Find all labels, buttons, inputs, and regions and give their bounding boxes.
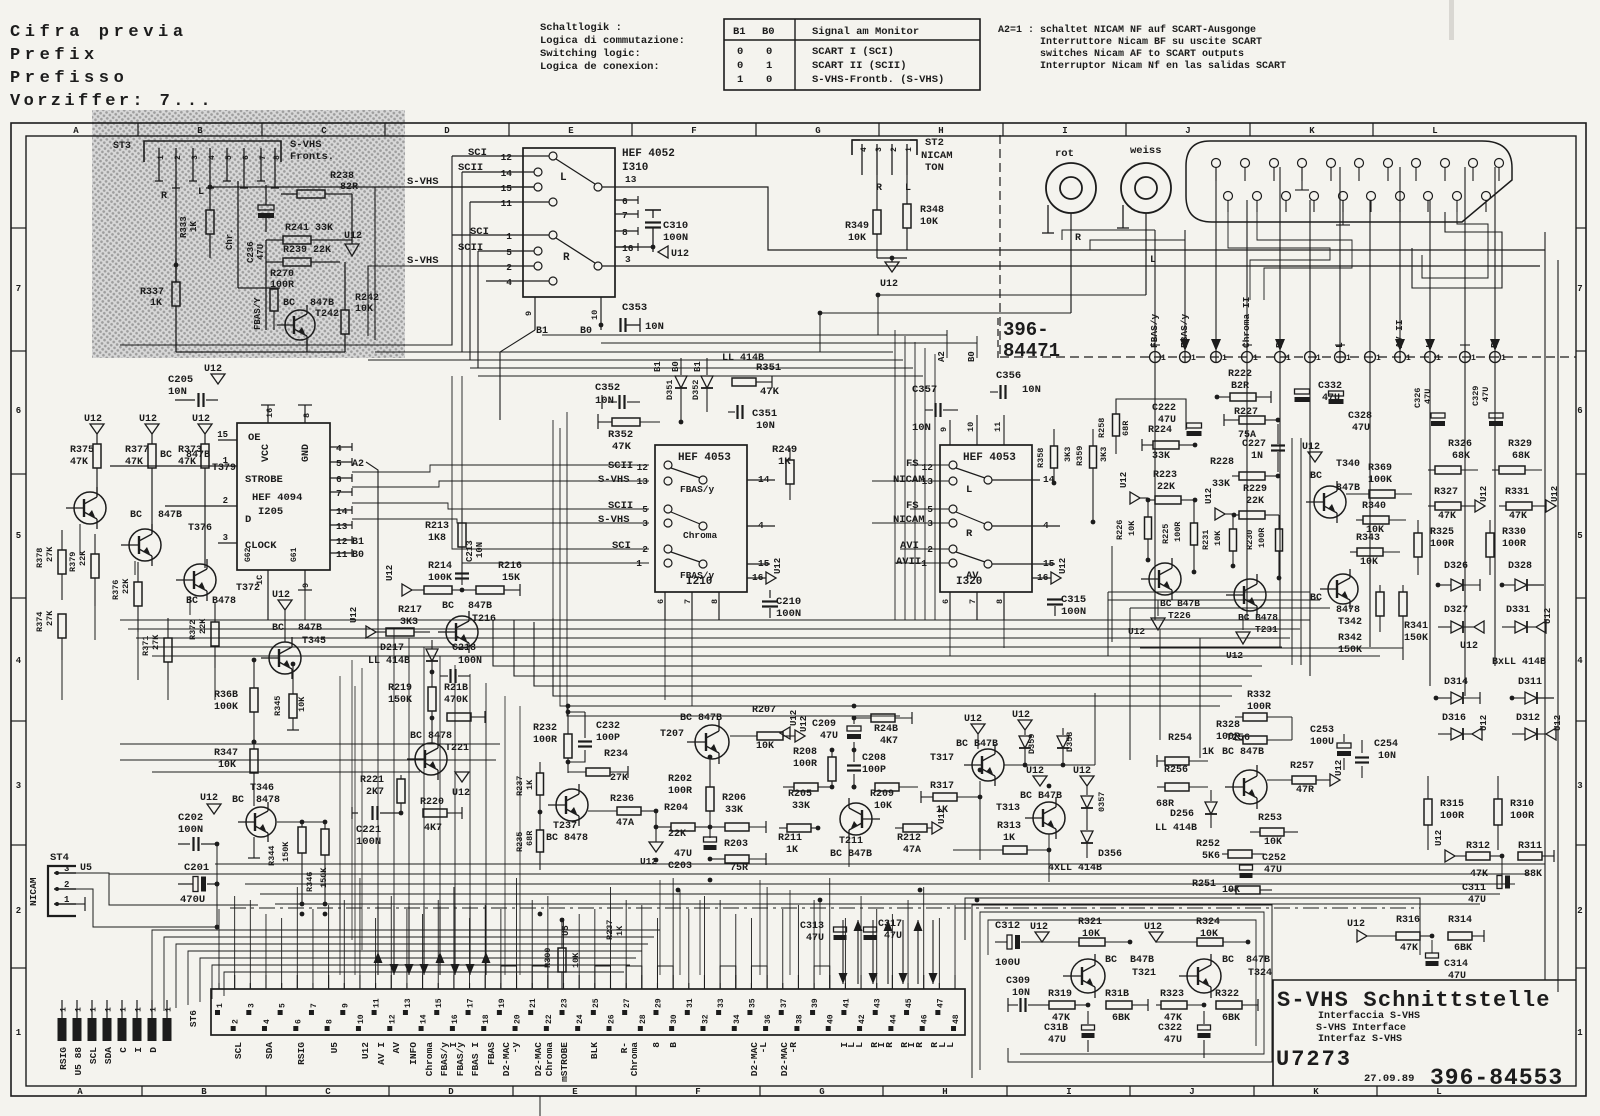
svg-text:S-VHS: S-VHS	[598, 474, 630, 486]
svg-text:396-84553: 396-84553	[1430, 1065, 1563, 1091]
svg-text:GND: GND	[301, 444, 312, 462]
svg-text:27K: 27K	[45, 610, 55, 626]
svg-text:R206: R206	[722, 793, 746, 804]
svg-text:82R: 82R	[340, 182, 358, 193]
svg-text:27K: 27K	[610, 773, 628, 784]
I320 switches	[956, 468, 985, 478]
svg-text:10K: 10K	[218, 760, 236, 771]
svg-text:D: D	[448, 1087, 454, 1097]
svg-text:C315: C315	[1061, 594, 1086, 606]
svg-text:C208: C208	[862, 753, 886, 764]
svg-text:13: 13	[336, 521, 348, 532]
svg-text:T376: T376	[188, 523, 212, 534]
svg-text:5K6: 5K6	[1202, 851, 1220, 862]
supply U12 T345	[278, 600, 292, 610]
svg-text:BC B47B: BC B47B	[956, 739, 998, 750]
svg-text:84471: 84471	[1003, 340, 1060, 362]
svg-text:LL 414B: LL 414B	[368, 656, 410, 667]
svg-text:U12: U12	[1026, 766, 1044, 777]
arrow group into ST6 right	[839, 973, 848, 984]
svg-text:19: 19	[498, 998, 507, 1008]
svg-text:BC: BC	[1310, 593, 1322, 604]
svg-text:C236: C236	[246, 241, 256, 263]
svg-text:34: 34	[733, 1014, 742, 1024]
svg-text:AVI: AVI	[900, 540, 919, 552]
svg-text:35: 35	[748, 998, 757, 1008]
wire loop nest right A	[1412, 212, 1502, 288]
svg-text:F: F	[695, 1087, 700, 1097]
svg-text:C309: C309	[1006, 976, 1030, 987]
svg-text:T321: T321	[1132, 968, 1156, 979]
svg-text:Interfaccia S-VHS: Interfaccia S-VHS	[1318, 1010, 1420, 1022]
I310 input circles	[534, 168, 542, 176]
svg-text:D: D	[444, 126, 450, 136]
svg-text:C: C	[325, 1087, 331, 1097]
svg-text:47U: 47U	[884, 931, 902, 942]
svg-text:1K: 1K	[189, 221, 199, 232]
svg-text:E: E	[572, 1087, 578, 1097]
svg-text:47U: 47U	[1164, 1035, 1182, 1046]
svg-text:33K: 33K	[792, 801, 810, 812]
ST4 pin1 stub	[76, 903, 85, 905]
svg-text:847B: 847B	[158, 510, 182, 521]
svg-text:FBAS: FBAS	[486, 1042, 497, 1065]
svg-text:U12: U12	[964, 714, 982, 725]
svg-text:7: 7	[968, 599, 978, 604]
svg-text:Interruptor Nicam Nf en las sa: Interruptor Nicam Nf en las salidas SCAR…	[1040, 60, 1286, 72]
svg-text:Logica de conexion:: Logica de conexion:	[540, 61, 660, 73]
svg-text:R256: R256	[1164, 765, 1188, 776]
svg-text:D351: D351	[665, 380, 675, 400]
svg-text:47U: 47U	[820, 731, 838, 742]
svg-text:3: 3	[16, 781, 21, 791]
supply U12 T317	[971, 724, 985, 734]
svg-text:4K7: 4K7	[880, 736, 898, 747]
svg-text:BC 847B: BC 847B	[680, 713, 722, 724]
svg-text:R316: R316	[1396, 915, 1420, 926]
svg-text:C253: C253	[1310, 725, 1334, 736]
svg-text:R348: R348	[920, 205, 944, 216]
svg-text:LL 414B: LL 414B	[1155, 823, 1197, 834]
svg-text:13: 13	[637, 476, 649, 487]
svg-text:BC: BC	[186, 596, 198, 607]
svg-text:C232: C232	[596, 721, 620, 732]
svg-text:150K: 150K	[1338, 645, 1362, 656]
svg-text:7: 7	[310, 1003, 319, 1008]
svg-text:C218: C218	[452, 643, 476, 654]
supply U12 D357	[1080, 776, 1094, 786]
supply U12 R207	[795, 730, 805, 742]
svg-text:7: 7	[683, 599, 693, 604]
wire SCART pin verticals	[1215, 167, 1217, 351]
svg-text:U12: U12	[344, 231, 362, 242]
svg-text:T221: T221	[445, 743, 469, 754]
svg-text:6: 6	[294, 1019, 303, 1024]
svg-text:NICAM: NICAM	[893, 474, 925, 486]
svg-text:C213: C213	[465, 540, 475, 562]
svg-text:3: 3	[223, 533, 228, 543]
svg-text:R270: R270	[270, 269, 294, 280]
SCART pins top row	[1212, 159, 1221, 168]
svg-text:1: 1	[216, 1003, 225, 1008]
svg-text:T372: T372	[236, 583, 260, 594]
svg-text:R324: R324	[1196, 917, 1220, 928]
wire left bus verticals	[31, 230, 33, 700]
svg-text:6: 6	[336, 474, 342, 485]
svg-text:470K: 470K	[444, 695, 468, 706]
svg-text:47U: 47U	[806, 933, 824, 944]
svg-text:12: 12	[637, 462, 649, 473]
svg-text:25: 25	[592, 998, 601, 1008]
svg-text:B: B	[197, 126, 203, 136]
capacitor C315 100N	[1054, 564, 1056, 596]
svg-text:U12: U12	[1012, 710, 1030, 721]
svg-text:HEF 4053: HEF 4053	[963, 452, 1016, 464]
svg-text:C311: C311	[1462, 883, 1486, 894]
svg-text:C310: C310	[663, 220, 688, 232]
svg-text:10K: 10K	[355, 304, 373, 315]
svg-text:FBAS/y: FBAS/y	[455, 1042, 466, 1077]
svg-text:R211: R211	[778, 833, 802, 844]
svg-text:44: 44	[889, 1014, 898, 1024]
svg-text:L: L	[966, 484, 972, 496]
wire cell dividers right	[1291, 438, 1293, 665]
svg-text:2: 2	[642, 544, 648, 555]
svg-text:R315: R315	[1440, 799, 1464, 810]
supply U12 T313	[1033, 776, 1047, 786]
svg-text:R241 33K: R241 33K	[285, 223, 333, 234]
svg-text:C356: C356	[996, 370, 1021, 382]
svg-text:R377: R377	[125, 445, 149, 456]
connector ST6 body	[211, 989, 965, 1035]
svg-text:D359: D359	[1027, 734, 1037, 754]
svg-text:U12: U12	[1302, 442, 1320, 453]
wire mid-right vertical drops	[1129, 608, 1131, 760]
svg-text:33: 33	[717, 998, 726, 1008]
svg-text:1: 1	[636, 558, 642, 569]
transistor T226	[1149, 563, 1181, 595]
svg-text:6: 6	[16, 406, 21, 416]
svg-text:3K3: 3K3	[1063, 447, 1073, 462]
svg-text:R254: R254	[1168, 733, 1192, 744]
svg-text:BC: BC	[1105, 955, 1117, 966]
svg-text:C312: C312	[995, 920, 1020, 932]
svg-text:48: 48	[952, 1014, 961, 1024]
svg-text:470U: 470U	[180, 894, 205, 906]
svg-text:U12: U12	[84, 414, 102, 425]
svg-text:NICAM: NICAM	[921, 150, 953, 162]
svg-text:8: 8	[651, 1042, 662, 1048]
svg-text:S-VHS: S-VHS	[598, 514, 630, 526]
svg-text:10N: 10N	[475, 542, 485, 558]
svg-text:L: L	[198, 187, 204, 198]
svg-text:47U: 47U	[1423, 389, 1433, 404]
svg-text:R345: R345	[273, 696, 283, 716]
svg-text:R231: R231	[1201, 530, 1211, 550]
svg-text:B0: B0	[762, 26, 775, 38]
svg-text:8: 8	[995, 599, 1005, 604]
svg-text:5: 5	[642, 504, 648, 515]
svg-text:21: 21	[529, 998, 538, 1008]
svg-text:47U: 47U	[1352, 423, 1370, 434]
supply U12 at C205	[211, 374, 225, 384]
svg-text:3: 3	[191, 155, 200, 160]
svg-text:U12: U12	[1479, 715, 1489, 731]
svg-text:R224: R224	[1148, 425, 1172, 436]
I320 left wires	[910, 464, 949, 466]
wire T317 collector rail	[1004, 764, 1095, 766]
op IC HEF 4052 I310 body	[523, 148, 615, 297]
svg-text:Interruttore Nicam BF su uscit: Interruttore Nicam BF su uscite SCART	[1040, 36, 1262, 48]
svg-text:U12: U12	[272, 590, 290, 601]
svg-text:100R: 100R	[1510, 811, 1534, 822]
svg-text:R219: R219	[388, 683, 412, 694]
svg-text:2: 2	[174, 155, 183, 160]
svg-text:10N: 10N	[645, 321, 664, 333]
svg-text:7: 7	[336, 488, 342, 499]
svg-text:47K: 47K	[70, 457, 88, 468]
svg-text:100K: 100K	[214, 702, 238, 713]
svg-text:2: 2	[890, 147, 899, 152]
wire bundle from I205 to I210	[352, 465, 649, 472]
svg-text:NICAM: NICAM	[893, 514, 925, 526]
svg-text:0: 0	[737, 46, 743, 58]
svg-text:G: G	[819, 1087, 824, 1097]
svg-text:45: 45	[905, 998, 914, 1008]
IC HEF 4053 I210 body	[655, 445, 747, 592]
svg-text:T379: T379	[212, 463, 236, 474]
SCART pin stub bars	[1263, 180, 1285, 182]
svg-text:U12: U12	[1347, 919, 1365, 930]
wire mid-right horizontals	[1108, 591, 1310, 593]
svg-text:33K: 33K	[1212, 479, 1230, 490]
svg-text:9: 9	[301, 583, 311, 588]
svg-text:-R: -R	[788, 1042, 799, 1054]
svg-text:U5: U5	[329, 1042, 340, 1054]
I310 switch R	[549, 231, 557, 239]
svg-text:R204: R204	[664, 803, 688, 814]
svg-text:12: 12	[922, 462, 934, 473]
svg-text:24: 24	[576, 1014, 585, 1024]
svg-text:B: B	[201, 1087, 207, 1097]
svg-text:10N: 10N	[1378, 751, 1396, 762]
I210 input circles	[664, 461, 672, 469]
svg-text:A: A	[77, 1087, 83, 1097]
svg-text:9: 9	[524, 311, 534, 316]
svg-text:U12: U12	[1434, 830, 1444, 846]
svg-text:0: 0	[766, 74, 772, 86]
wire mid horizontals row3	[120, 743, 500, 745]
svg-text:847B: 847B	[186, 450, 210, 461]
svg-text:R379: R379	[68, 552, 78, 572]
svg-text:H: H	[938, 126, 943, 136]
svg-text:4xLL 414B: 4xLL 414B	[1048, 863, 1102, 874]
wire C201 feed vertical	[216, 844, 218, 927]
svg-text:BxLL 414B: BxLL 414B	[1492, 657, 1546, 668]
svg-text:H: H	[942, 1087, 947, 1097]
svg-text:R331: R331	[1505, 487, 1529, 498]
svg-text:R257: R257	[1290, 761, 1314, 772]
svg-text:R329: R329	[1508, 439, 1532, 450]
svg-text:U12: U12	[1460, 641, 1478, 652]
svg-text:R326: R326	[1448, 439, 1472, 450]
svg-text:FBAS I: FBAS I	[470, 1042, 481, 1076]
svg-text:U12: U12	[204, 364, 222, 375]
svg-text:100R: 100R	[1440, 811, 1464, 822]
svg-text:R208: R208	[793, 747, 817, 758]
wire ST4 pin2 route	[76, 889, 217, 927]
svg-text:47A: 47A	[616, 818, 634, 829]
svg-text:38: 38	[795, 1014, 804, 1024]
I210 switches	[671, 468, 700, 478]
svg-text:R375: R375	[70, 445, 94, 456]
svg-text:S-VHS Schnittstelle: S-VHS Schnittstelle	[1277, 988, 1551, 1013]
svg-text:AV I: AV I	[376, 1042, 387, 1065]
wire dash-dot center line	[230, 907, 1420, 909]
svg-text:1: 1	[1316, 354, 1321, 363]
svg-text:S-VHS: S-VHS	[407, 176, 439, 188]
svg-text:TON: TON	[925, 162, 944, 174]
svg-text:R24B: R24B	[874, 724, 898, 735]
svg-text:47U: 47U	[256, 244, 266, 260]
svg-text:47U: 47U	[1481, 387, 1491, 402]
svg-text:42: 42	[858, 1014, 867, 1024]
svg-text:switches Nicam AF to SCART out: switches Nicam AF to SCART outputs	[1040, 48, 1244, 60]
wire B1 bus to I320	[542, 334, 947, 336]
supply U12 T231	[1236, 632, 1250, 644]
svg-text:R232: R232	[533, 723, 557, 734]
connector ST2	[852, 139, 917, 141]
svg-text:22K: 22K	[1246, 496, 1264, 507]
svg-text:14: 14	[336, 506, 348, 517]
svg-text:8: 8	[326, 1019, 335, 1024]
svg-text:100K: 100K	[428, 573, 452, 584]
svg-text:10K: 10K	[1360, 557, 1378, 568]
svg-text:D: D	[245, 514, 251, 526]
svg-text:T342: T342	[1338, 617, 1362, 628]
svg-text:31: 31	[686, 998, 695, 1008]
svg-text:U12: U12	[1058, 558, 1068, 574]
title block box	[1273, 980, 1576, 1086]
supply U12 at C310	[658, 246, 668, 258]
svg-text:R310: R310	[1510, 799, 1534, 810]
svg-text:C317: C317	[878, 919, 902, 930]
svg-text:6BK: 6BK	[1454, 943, 1472, 954]
svg-text:10K: 10K	[874, 801, 892, 812]
svg-text:15: 15	[217, 430, 228, 440]
svg-text:2: 2	[16, 906, 21, 916]
svg-text:4: 4	[860, 147, 869, 152]
svg-text:1K: 1K	[1003, 833, 1015, 844]
svg-text:ST4: ST4	[50, 852, 69, 864]
svg-text:B0: B0	[352, 550, 364, 561]
svg-text:R341: R341	[1404, 621, 1428, 632]
svg-text:4: 4	[208, 155, 217, 160]
svg-text:Chroma: Chroma	[424, 1042, 435, 1077]
supply U12 R212	[932, 822, 942, 834]
svg-text:Chr.: Chr.	[225, 228, 235, 250]
I210 bottom pins	[664, 592, 666, 620]
svg-text:BC 847B: BC 847B	[1222, 747, 1264, 758]
svg-text:Prefix: Prefix	[10, 46, 99, 65]
svg-text:R337: R337	[140, 287, 164, 298]
svg-text:Interfaz S-VHS: Interfaz S-VHS	[1318, 1033, 1402, 1045]
svg-text:16: 16	[265, 408, 275, 418]
svg-text:22K: 22K	[198, 618, 208, 634]
svg-text:ST3: ST3	[113, 141, 131, 152]
svg-text:R212: R212	[897, 833, 921, 844]
svg-text:I205: I205	[258, 506, 283, 518]
svg-text:1K: 1K	[1202, 747, 1214, 758]
wire L horizontal	[210, 186, 534, 188]
SCART connector outline	[1186, 141, 1512, 222]
svg-text:R313: R313	[997, 821, 1021, 832]
dashed boundary vertical	[999, 135, 1001, 357]
svg-text:BC: BC	[442, 601, 454, 612]
svg-text:I310: I310	[622, 162, 648, 174]
svg-text:75R: 75R	[730, 863, 748, 874]
svg-text:27K: 27K	[45, 546, 55, 562]
interface nodes on dashed line	[1150, 352, 1161, 363]
wire horizontals upper field	[120, 344, 452, 346]
svg-text:16: 16	[622, 243, 634, 254]
supply U12 R231	[1215, 508, 1225, 520]
wire loop nest mid	[1228, 212, 1330, 300]
svg-text:R340: R340	[1362, 501, 1386, 512]
svg-text:L: L	[560, 172, 567, 184]
svg-text:0: 0	[766, 46, 772, 58]
svg-text:6: 6	[242, 155, 251, 160]
svg-text:5: 5	[225, 155, 234, 160]
svg-text:R333: R333	[179, 216, 189, 238]
svg-text:R226: R226	[1115, 520, 1125, 540]
svg-text:T324: T324	[1248, 968, 1272, 979]
svg-text:R325: R325	[1430, 527, 1454, 538]
svg-text:T313: T313	[996, 803, 1020, 814]
svg-text:SCII: SCII	[608, 500, 633, 512]
svg-text:1: 1	[506, 231, 512, 242]
svg-text:1: 1	[1222, 354, 1227, 363]
wire Chr vertical	[237, 181, 239, 288]
svg-text:I: I	[1062, 126, 1067, 136]
svg-text:T226: T226	[1168, 610, 1191, 621]
svg-text:E: E	[568, 126, 574, 136]
svg-text:D256: D256	[1170, 809, 1194, 820]
svg-text:U12: U12	[200, 793, 218, 804]
svg-text:10: 10	[590, 310, 600, 320]
supply U12 D331	[1536, 621, 1546, 633]
svg-text:B1: B1	[653, 361, 663, 372]
svg-text:R: R	[884, 1042, 895, 1048]
supply U12 D316	[1472, 728, 1482, 740]
svg-text:C326: C326	[1413, 388, 1423, 408]
svg-text:1K: 1K	[525, 779, 535, 790]
svg-text:8478: 8478	[1336, 605, 1360, 616]
svg-text:C202: C202	[178, 812, 203, 824]
svg-text:C221: C221	[356, 824, 381, 836]
svg-text:BC: BC	[283, 298, 295, 309]
svg-text:14: 14	[420, 1014, 429, 1024]
svg-text:B478: B478	[212, 596, 236, 607]
supply U12 ST2	[885, 262, 899, 272]
supply U12 T340	[1308, 452, 1322, 462]
svg-text:U12: U12	[1479, 486, 1489, 502]
wire B1 B0 drop	[500, 330, 535, 420]
svg-text:T345: T345	[302, 636, 326, 647]
svg-text:1: 1	[1286, 354, 1291, 363]
svg-text:11: 11	[501, 198, 513, 209]
svg-text:1: 1	[1577, 1028, 1583, 1038]
